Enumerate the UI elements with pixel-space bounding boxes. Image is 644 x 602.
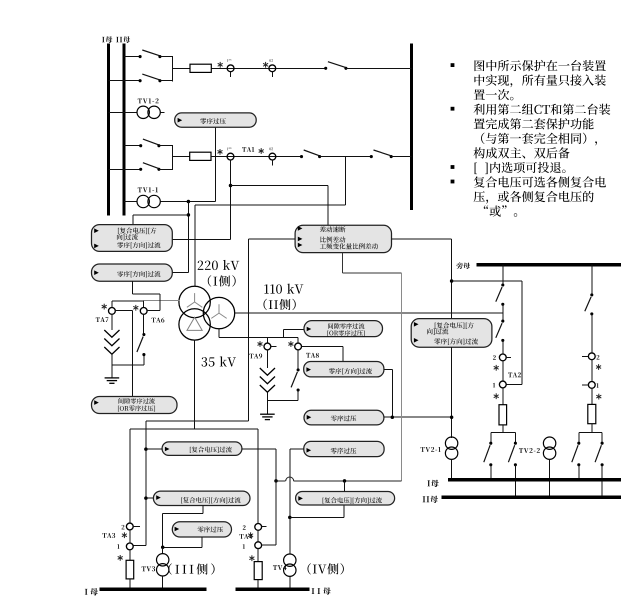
polarity mark * — [133, 305, 138, 311]
wire — [111, 301, 113, 308]
circuit breaker row1 — [190, 64, 211, 72]
polarity mark * — [248, 532, 253, 538]
wire M2 output down — [391, 369, 393, 417]
wire TA2 secondary riser — [521, 281, 523, 385]
wire TV4 voltage riser — [289, 449, 291, 517]
bus I-mother (220kV bus I), vertical — [107, 44, 110, 216]
wire to TA2 group1 secondary — [452, 280, 522, 282]
wire — [320, 156, 372, 158]
disconnector row2 upper — [139, 139, 160, 147]
voltage transformer TV3 — [157, 554, 169, 576]
wire — [591, 424, 593, 433]
wire block L2 right side — [172, 271, 188, 273]
label (III side) — [168, 563, 214, 574]
TA4 group2 stub — [262, 526, 267, 528]
label TA2 — [508, 372, 521, 377]
wire bus II to TV1-1 — [124, 201, 137, 203]
label 1 — [493, 383, 495, 388]
wire into block M1 left — [283, 328, 304, 330]
wire 220kV lead into winding I — [194, 205, 196, 287]
voltage transformer TV2-1 — [445, 437, 457, 459]
polarity mark * — [218, 62, 223, 68]
label TV1-1 — [138, 187, 158, 192]
wire — [143, 355, 145, 366]
wire — [159, 168, 172, 170]
junction TA1 secondary — [229, 184, 233, 188]
disconnector row1 upper — [139, 50, 162, 58]
label II-mu — [312, 587, 331, 594]
CT TA7 (220kV neutral) — [109, 308, 116, 315]
wire to bus II — [601, 465, 603, 497]
label 1 — [597, 383, 599, 388]
polarity mark * — [257, 341, 262, 347]
wire differential bottom CT circuit (gray route) — [341, 253, 343, 273]
wire — [591, 314, 593, 353]
label 2 — [493, 355, 496, 360]
wire TA2 group1 stub — [506, 384, 522, 386]
circuit breaker bypass bay right — [588, 404, 596, 423]
CT secondary stub — [230, 72, 232, 78]
wire 35kV-side CT circuit into differential left — [249, 238, 295, 240]
wire TA7 secondary down to block L3 — [131, 311, 133, 397]
wire to bus I — [578, 465, 580, 480]
label 220 kV — [198, 260, 240, 270]
wire to right bus — [391, 156, 411, 158]
circuit breaker III side — [126, 560, 134, 579]
voltage transformer TV1-1 — [137, 195, 160, 207]
transformer winding III 35kV (delta) — [179, 309, 210, 340]
label II-mu — [423, 496, 438, 503]
label TA1 — [242, 147, 254, 152]
protection block R1 composite-voltage directional overcurrent + zero-seq (110kV) — [411, 319, 492, 348]
junction TV3 — [161, 546, 165, 550]
junction to TA2 secondary — [450, 279, 454, 283]
wire 220kV lead horizontal — [195, 204, 346, 206]
wire TV4 voltage to block M5 — [290, 516, 344, 518]
disconnector left bay lower — [496, 320, 505, 342]
disconnector row1 lower — [139, 74, 162, 82]
voltage transformer TV1-2 — [137, 106, 160, 118]
wire grounding switch branch join — [112, 364, 144, 366]
wire TA1 secondary to differential block — [231, 185, 329, 187]
wire into block M5 top edge — [344, 481, 346, 492]
wire — [129, 530, 131, 543]
wire bus I to TV1-2 — [109, 111, 138, 113]
voltage transformer TV4 — [284, 554, 296, 576]
wire neutral to grounding switch — [143, 314, 145, 334]
wire — [591, 388, 593, 404]
circuit breaker bypass bay left — [499, 405, 507, 425]
label (IV side) — [307, 563, 343, 574]
wire TA3 group1 secondary stub — [133, 545, 146, 547]
protection block L6 zero-sequence overvoltage (III side) — [172, 522, 231, 537]
protection block L5 composite-voltage directional overcurrent (III side) — [153, 491, 250, 505]
wire join — [171, 145, 173, 170]
CT TA6 (220kV neutral) — [140, 308, 147, 315]
disconnector to bus II — [508, 442, 517, 467]
label 1 — [243, 544, 245, 549]
label I-mu — [427, 480, 438, 487]
wire — [591, 360, 593, 382]
label TV2-2 — [519, 448, 540, 453]
wire — [502, 340, 504, 354]
wire join of the two disconnectors — [171, 56, 173, 81]
CT tiny label — [227, 59, 232, 62]
wire into block L2 bottom edge — [132, 281, 134, 294]
wire 35kV CT circuit riser — [248, 239, 250, 421]
junction TV4 voltage — [288, 516, 292, 520]
TA2 group2 stub — [506, 356, 511, 358]
polarity mark * — [217, 149, 222, 155]
wire bypass bus down left bay — [502, 265, 504, 285]
wire — [257, 530, 259, 542]
CT TA8 (110kV neutral) — [295, 343, 302, 350]
wire — [490, 433, 492, 444]
wire — [601, 432, 603, 443]
wire bus I to disconnector row2 — [109, 168, 141, 170]
transformer winding II 110kV (wye) — [203, 297, 234, 328]
wire split to buses — [579, 431, 602, 433]
TA3 group2 stub — [133, 525, 140, 527]
CT tiny label — [269, 59, 273, 62]
protection block M4 zero-sequence overvoltage (IV side) — [304, 441, 384, 456]
wire — [160, 80, 172, 82]
polarity mark * — [288, 341, 293, 347]
CT TA1 group2 — [269, 153, 276, 160]
wire M3/M2 outputs to TV2-1 circuit — [384, 416, 452, 418]
circuit breaker row2 (transformer 220kV breaker) — [190, 152, 211, 160]
wire voltage to block L1 top — [133, 214, 189, 216]
wire block L5 bottom voltage input — [202, 506, 204, 514]
disconnector row1 to right bus — [324, 62, 347, 70]
label (II side) — [263, 299, 295, 310]
wire into block M5 bottom — [343, 505, 345, 517]
wire winding II neutral stub — [218, 329, 220, 338]
wire TA6 secondary riser — [159, 294, 161, 311]
wire — [163, 546, 202, 548]
wire voltage branch down — [187, 202, 189, 273]
wire — [143, 300, 145, 307]
polarity mark * — [118, 555, 123, 561]
CT TA1 group1 — [227, 153, 234, 160]
wire block M2 output — [384, 368, 392, 370]
note text bullet list — [451, 60, 611, 217]
voltage transformer TV2-2 — [543, 437, 555, 459]
bus II-mother (35kV side IV) — [236, 587, 310, 591]
wire TV3 to bus I — [162, 576, 164, 589]
wire bus I to disconnector row1 — [109, 80, 141, 82]
polarity mark * — [249, 555, 254, 561]
wire into block L1 top edge — [132, 215, 134, 225]
wire to bus II — [514, 465, 516, 497]
label I-mu II-mu — [102, 36, 130, 43]
polarity mark * — [259, 148, 264, 154]
junction voltage branch — [187, 213, 191, 217]
wire gap to ground — [266, 392, 268, 414]
wire neutral to TA7/TA6 — [112, 300, 144, 302]
disconnector row2 lower — [139, 163, 160, 171]
wire row1 through CTs — [211, 67, 325, 69]
grounding switch 110kV neutral — [291, 368, 300, 391]
CT TA3 group2 — [126, 523, 133, 530]
protection block M5 composite-voltage directional overcurrent (IV side) — [296, 492, 395, 506]
polarity mark * — [494, 393, 499, 399]
CT tiny label — [269, 148, 273, 151]
wire — [163, 512, 203, 514]
label TA9 — [249, 354, 262, 359]
protection block T1 zero-sequence overvoltage 零序过压 — [175, 113, 257, 127]
protection block M1 gap zero-seq 间隙零序过流[OR零序过压] (110kV) — [304, 321, 383, 337]
label TV2-1 — [421, 447, 441, 452]
wire block L4 right to IV CT riser — [242, 448, 276, 450]
polarity mark * — [596, 364, 601, 370]
wire to breaker row1 — [172, 67, 190, 69]
label TV1-2 — [138, 98, 159, 103]
label TA8 — [306, 353, 319, 358]
wire up to block T1 zero-seq overvoltage — [214, 127, 216, 201]
wire gap to ground — [111, 354, 113, 377]
wire 110kV-side CT circuit from differential right — [392, 238, 452, 240]
disconnector to bus I — [572, 442, 581, 467]
wire — [297, 390, 299, 400]
wire neutral riser to block M1 — [282, 329, 284, 337]
protection block L2 zero-sequence directional overcurrent 零序[方向]过流 — [92, 264, 173, 281]
wire TV3 voltage riser — [162, 513, 164, 547]
junction TV1-1 — [187, 200, 191, 204]
CT row1 first — [227, 65, 234, 72]
wire — [297, 350, 299, 370]
polarity mark * — [102, 304, 107, 310]
junction M3 output — [450, 415, 454, 419]
wire 110kV neutral horizontal — [219, 337, 298, 339]
label TV4 — [273, 565, 287, 570]
wire — [129, 550, 131, 561]
bus II-mother (220kV bus II), vertical — [122, 44, 125, 216]
bus I-mother (35kV side III) — [100, 587, 207, 591]
CT tiny label — [227, 147, 232, 150]
wire — [257, 549, 259, 562]
wire winding I neutral lead — [144, 299, 180, 301]
wire — [502, 361, 504, 382]
protection block M3 zero-sequence overvoltage (110kV) — [304, 410, 384, 425]
wire breaker to bus II — [257, 580, 259, 590]
wire TV4 to bus II — [289, 576, 291, 589]
protection block L1 composite-voltage directional overcurrent + zero-seq directional overcurrent — [92, 225, 173, 252]
wire III-side CT riser (TA3 group1) — [145, 421, 147, 545]
CT TA2 group2 — [499, 354, 506, 361]
wire block L1 right side to TA1 circuit — [172, 238, 230, 240]
ground 220kV neutral — [105, 378, 120, 383]
label pang-mu — [456, 262, 470, 269]
wire to TA9 — [266, 338, 268, 344]
CT TA3 group1 — [126, 543, 133, 550]
junction M2/M3 outputs — [391, 415, 395, 419]
wire block M4 input — [290, 448, 304, 450]
protection block D1 differential: 差动速断/比例差动/工频变化量比例差动 — [295, 225, 391, 252]
stub — [582, 384, 589, 386]
wire TA6 secondary stub — [147, 310, 160, 312]
grounding switch 220kV neutral — [137, 333, 146, 356]
wire neutral down to gap — [111, 314, 113, 330]
wire to bus I — [490, 465, 492, 480]
protection block M2 zero-seq directional overcurrent (110kV) — [304, 362, 384, 377]
disconnector to bus II — [595, 442, 604, 467]
TV1-2 stub — [160, 111, 164, 113]
polarity mark * — [122, 532, 127, 538]
label 1 — [117, 544, 119, 549]
junction L5 input — [144, 496, 148, 500]
wire — [502, 304, 504, 321]
CT TA2 group1 — [499, 381, 506, 388]
wire — [502, 388, 504, 405]
wire 110kV lead to bypass bay — [235, 312, 503, 314]
wire TA4 group1 secondary stub — [262, 544, 276, 546]
wire down to TV2-1 — [451, 347, 453, 438]
label 2 — [122, 525, 125, 530]
wire block L6 bottom voltage input — [201, 537, 203, 547]
wire IV branch down — [257, 429, 259, 523]
ground 110kV neutral — [260, 414, 275, 419]
label TA6 — [152, 318, 165, 323]
wire to TA8 — [297, 338, 299, 344]
disconnector row2 middle — [300, 150, 321, 158]
CT right-bay group1 — [588, 382, 595, 389]
bus I-mother (110kV) — [448, 478, 621, 482]
junction gray route to block M5 top — [343, 479, 347, 483]
wire 110kV CT circuit down to block R1 — [451, 239, 453, 319]
discharge gap 110kV neutral — [260, 368, 275, 392]
circuit breaker IV side — [254, 562, 262, 580]
wire IV CT riser down to TA4 — [275, 449, 277, 545]
bypass bus 旁母 — [477, 263, 622, 267]
wire 220kV tap down — [345, 157, 347, 205]
disconnector row2 right — [370, 150, 393, 158]
label 2 — [243, 525, 246, 530]
wire TV2-1 to bus I — [451, 459, 453, 479]
label 110 kV — [264, 284, 303, 294]
CT TA9 (110kV neutral) — [264, 343, 271, 350]
label TA7 — [96, 317, 109, 322]
wire TV1-1 secondary — [160, 201, 215, 203]
CT row1 second — [269, 65, 276, 72]
CT TA4 group1 — [255, 542, 262, 549]
wire bypass bus down right bay — [591, 265, 593, 295]
label TV3 — [142, 566, 155, 571]
wire to right bus — [346, 67, 412, 69]
discharge gap 220kV neutral — [104, 330, 119, 354]
CT TA4 group2 — [255, 524, 262, 531]
CT secondary stub — [271, 160, 273, 166]
wire grounding switch join — [267, 399, 298, 401]
disconnector right bay — [585, 293, 594, 315]
polarity mark * — [263, 62, 268, 68]
wire — [578, 432, 580, 443]
wire TA9 to gap — [266, 350, 268, 368]
wire breaker to bus I — [129, 579, 131, 589]
polarity mark * — [494, 365, 499, 371]
label 2 — [597, 355, 600, 360]
wire block L4 input — [146, 448, 163, 450]
junction gray route to L4/TA4 riser — [274, 479, 278, 483]
wire — [514, 433, 516, 444]
polarity mark * — [596, 394, 601, 400]
label 35 kV — [201, 356, 236, 366]
bus right (220kV), vertical — [410, 44, 413, 210]
wire to block L2 bottom — [133, 293, 161, 295]
wire TV3 top — [162, 547, 164, 553]
wire III branch down — [129, 429, 131, 523]
wire TA1 secondary down — [230, 160, 232, 239]
wire row2 through CT TA1 — [211, 156, 302, 158]
wire split to buses — [491, 432, 516, 434]
wire TA8 secondary into block M2 top — [342, 347, 344, 362]
protection block L4 composite-voltage overcurrent (III side) — [162, 442, 242, 456]
stub — [582, 355, 589, 357]
wire 35kV split horizontal — [130, 428, 258, 430]
TA9 secondary stub — [271, 346, 277, 348]
wire TA7 secondary stub — [115, 310, 132, 312]
wire — [502, 425, 504, 433]
wire block L5 input — [146, 497, 154, 499]
CT right-bay group2 — [588, 353, 595, 360]
disconnector left bay upper — [496, 283, 505, 305]
wire — [160, 56, 172, 58]
wire — [159, 145, 172, 147]
wire TV2-2 to bus II — [549, 459, 551, 497]
wire bus II to disconnector row2 — [124, 145, 141, 147]
CT secondary stub — [271, 72, 273, 78]
bus II-mother (110kV) — [442, 495, 622, 499]
protection block L3 gap zero-seq overcurrent 间隙零序过流[OR零序过压] — [92, 397, 178, 414]
label (I side) — [208, 275, 236, 286]
label TA3 — [102, 533, 115, 538]
wire bus II to disconnector row1 — [124, 56, 140, 58]
junction L4 input — [144, 447, 148, 451]
wire winding III 35kV lead down — [194, 340, 196, 429]
wire down into differential block top — [327, 186, 329, 226]
wire TV4 top — [289, 517, 291, 554]
wire III-side CT circuit horizontal — [146, 420, 249, 422]
label I-mu — [85, 588, 98, 595]
wire TA8 secondary — [301, 346, 343, 348]
disconnector to bus I — [484, 442, 493, 467]
label TA4 — [239, 534, 252, 539]
transformer T1 three-winding: winding I 220kV (wye) — [179, 286, 210, 317]
wire to breaker row2 — [172, 156, 189, 158]
